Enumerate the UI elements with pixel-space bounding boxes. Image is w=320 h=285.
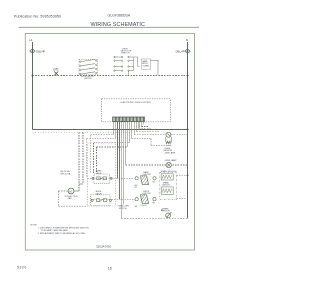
- svg-text:BK: BK: [153, 181, 156, 183]
- schematic panel border: [25, 33, 194, 250]
- switch door latch block: [79, 59, 98, 74]
- svg-text:3203A7050: 3203A7050: [96, 244, 112, 248]
- wire spark to N top: [176, 174, 187, 176]
- lamp oven light symbol: [166, 162, 171, 167]
- label oven selector switch: [121, 48, 132, 54]
- wire drop x96.5: [96, 147, 98, 173]
- wire motor left stub: [58, 191, 87, 206]
- wire drop x83 motor feed: [82, 132, 84, 184]
- wire branch right y128.4: [139, 127, 151, 129]
- ignitor broil hatched box: [135, 195, 156, 204]
- svg-text:16: 16: [108, 266, 112, 270]
- wire lamp line y165: [126, 164, 188, 166]
- svg-text:7B: 7B: [134, 187, 137, 189]
- wire jog to sensor bracket: [132, 139, 166, 146]
- wire drop x93.5: [93, 143, 95, 173]
- header rule: [19, 26, 200, 28]
- label bake ignitor top: [143, 171, 152, 176]
- switch door light symbol: [161, 210, 171, 218]
- op-amp: electronic oven control box: [102, 99, 171, 122]
- header model number: [108, 13, 131, 17]
- svg-text:NOTE:: NOTE:: [31, 224, 38, 226]
- svg-text:DOOR: DOOR: [140, 205, 147, 207]
- wire sensor feed y134.8: [134, 134, 166, 136]
- label spark module center: [162, 181, 170, 186]
- svg-text:WH-16 GA: WH-16 GA: [61, 172, 71, 175]
- wire bake row: [88, 177, 135, 179]
- label oven light switch block: [117, 206, 130, 210]
- label bake valve: [96, 170, 103, 175]
- svg-text:BK: BK: [153, 202, 156, 204]
- label BK 16 GA wires: [61, 170, 71, 175]
- svg-text:N: N: [186, 38, 188, 42]
- svg-text:SWITCH: SWITCH: [84, 78, 92, 80]
- valve bake box: [92, 174, 112, 184]
- resistor oven sensor: [166, 132, 172, 145]
- wire selector legend to bus: [151, 60, 159, 75]
- junction spark N top: [187, 175, 189, 177]
- label selector legend box: [142, 59, 151, 69]
- ignitor bake hatched box: [135, 176, 156, 185]
- wire top bus dashed L1 to N: [32, 75, 187, 77]
- note block: [31, 224, 90, 235]
- wire motor right riser: [74, 184, 83, 191]
- label convection fan: [64, 196, 78, 200]
- motor convection fan: [68, 188, 74, 194]
- svg-text:OVEN LAMP: OVEN LAMP: [164, 159, 177, 162]
- label TCO fuse: [53, 68, 59, 72]
- header title WIRING SCHEMATIC: [91, 22, 146, 28]
- svg-text:GLGF386DSA: GLGF386DSA: [108, 13, 131, 17]
- svg-text:SWITCH: SWITCH: [162, 184, 170, 186]
- connector P2 N diamond: [185, 49, 190, 54]
- svg-text:ELECTRONIC OVEN CONTROL: ELECTRONIC OVEN CONTROL: [121, 102, 152, 104]
- header publication text: [14, 15, 61, 19]
- wire spark to N bottom: [176, 197, 187, 199]
- gas valve dashed enclosure: [88, 143, 116, 206]
- svg-text:BK: BK: [135, 206, 138, 208]
- wire bundle vertical drops from EOC: [114, 121, 144, 218]
- wire N rail vertical: [187, 42, 189, 218]
- label bake ignitor terminals: [134, 185, 138, 189]
- svg-text:SWITCH: SWITCH: [119, 208, 127, 210]
- wire L1 rail vertical: [31, 42, 33, 129]
- label broil valve: [96, 191, 103, 195]
- svg-text:FAN: FAN: [68, 197, 72, 200]
- wire branch right y126.5: [141, 126, 148, 128]
- wire branch left y142.8: [94, 142, 130, 144]
- relay spark bottom element: [161, 187, 173, 194]
- svg-text:L1: L1: [29, 38, 33, 42]
- svg-text:5320: 5320: [17, 266, 27, 270]
- switch selector contacts: [114, 56, 140, 75]
- svg-text:YOUR SAFETY AND WELFARE.: YOUR SAFETY AND WELFARE.: [40, 229, 68, 232]
- svg-text:DBL/4P: DBL/4P: [176, 49, 185, 53]
- fuse TCO X symbol: [54, 72, 58, 76]
- svg-text:40W LAMP: 40W LAMP: [165, 152, 176, 155]
- junction L1 line at N rail: [187, 128, 189, 130]
- wire dotted parallel under L1 line: [33, 131, 131, 133]
- svg-text:CLEAN: CLEAN: [142, 65, 149, 68]
- label broil ignitor terminals: [135, 206, 138, 208]
- wire bottom light line y218.3: [121, 217, 187, 219]
- svg-text:DBL/4P: DBL/4P: [36, 49, 45, 53]
- wire drop x90.3 to bake valve: [89, 135, 91, 173]
- label oven sensor: [163, 148, 172, 152]
- wire branch right y131.9: [137, 131, 159, 133]
- wire drop x79 motor feed: [78, 132, 80, 191]
- wire branch left y138.8: [87, 138, 116, 140]
- svg-text:2. REPLACEMENT WIRE TO BE RATE: 2. REPLACEMENT WIRE TO BE RATED AT 105 C…: [38, 232, 86, 235]
- wire branch left y147: [97, 146, 128, 148]
- junction N bus: [187, 75, 189, 77]
- spark module dashed box: [160, 173, 177, 200]
- connector P1 L1 diamond: [30, 49, 35, 54]
- svg-text:SWITCH: SWITCH: [121, 53, 129, 55]
- relay spark top element: [161, 174, 173, 180]
- wire branch left y134.8: [90, 134, 113, 136]
- valve broil box: [91, 195, 112, 206]
- connector EOC pin strip: [113, 117, 145, 121]
- svg-text:Publication No. 5995353950: Publication No. 5995353950: [14, 15, 61, 19]
- label spark ignitor bottom: [161, 207, 170, 212]
- wire broil row: [91, 198, 135, 200]
- wire drop x86.7: [86, 139, 88, 178]
- wire L1 horizontal to N rail: [32, 128, 187, 130]
- svg-text:VALVE: VALVE: [96, 172, 103, 175]
- label door latch switch: [81, 75, 94, 80]
- svg-text:M: M: [69, 189, 71, 193]
- svg-text:IGNITOR: IGNITOR: [161, 210, 170, 212]
- label broil ignitor top: [143, 191, 152, 195]
- junction L1 bus: [32, 75, 34, 77]
- wire sensor right to N: [171, 134, 187, 136]
